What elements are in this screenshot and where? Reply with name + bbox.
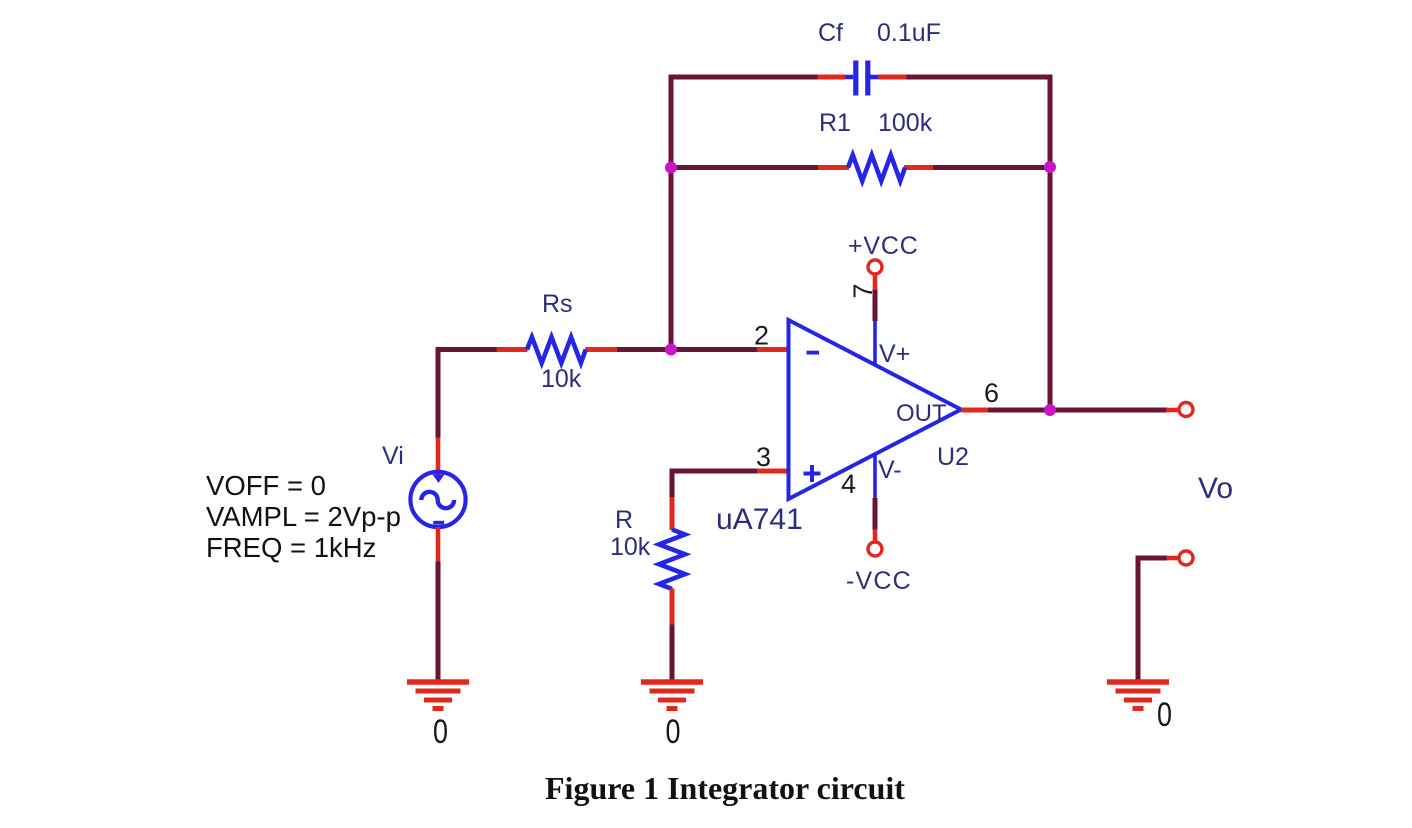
source Vi red lead top — [436, 438, 441, 478]
pin 4 maroon segment — [873, 498, 878, 530]
resistor R1 lead red right — [904, 165, 933, 170]
ground 0 at Vo — [1107, 682, 1169, 709]
resistor R lead red top — [670, 497, 675, 530]
terminal circle -VCC — [868, 542, 882, 556]
svg-text:100k: 100k — [878, 109, 933, 137]
ground 0 at R — [641, 682, 703, 709]
pin 7 maroon segment — [873, 289, 878, 321]
wire Vo reference corner — [1138, 558, 1167, 684]
pin number 2 — [754, 321, 769, 351]
svg-text:FREQ = 1kHz: FREQ = 1kHz — [206, 532, 376, 563]
pin 7 blue segment — [873, 320, 877, 365]
svg-text:Cf: Cf — [818, 19, 843, 47]
svg-text:V+: V+ — [879, 340, 910, 368]
value 10k Rs — [541, 365, 582, 393]
capacitor Cf lead red right — [878, 75, 906, 80]
pin number 7 rotated — [848, 283, 878, 298]
source Vi arrow marker — [433, 475, 445, 484]
svg-text:0.1uF: 0.1uF — [877, 19, 941, 47]
label R — [615, 506, 633, 534]
svg-text:VAMPL = 2Vp-p: VAMPL = 2Vp-p — [206, 501, 401, 532]
source Vi red lead bottom — [436, 527, 441, 562]
wire top-right corner and right vertical — [904, 77, 1050, 412]
ground label 0 (R) — [666, 713, 681, 751]
svg-text:0: 0 — [666, 713, 681, 751]
vo ref terminal red stub — [1167, 556, 1180, 561]
resistor R1 lead red left — [818, 165, 849, 170]
label +VCC — [848, 232, 919, 260]
value 10k R — [610, 533, 651, 561]
svg-text:OUT: OUT — [896, 400, 947, 427]
wire R1 row left maroon — [671, 165, 820, 170]
label Rs — [542, 290, 573, 318]
svg-text:V-: V- — [878, 456, 902, 484]
junction dot out — [1044, 404, 1056, 416]
wire Vi to ground maroon — [436, 562, 441, 685]
pin 3 stub red — [757, 469, 789, 474]
terminal circle +VCC — [868, 260, 882, 274]
caption Figure 1 Integrator circuit — [545, 770, 905, 806]
source Vi minus marker — [433, 521, 444, 525]
label V- — [878, 456, 902, 484]
label U2 — [937, 443, 969, 471]
ground label 0 (Vo) — [1157, 696, 1172, 734]
resistor Rs lead red right — [585, 347, 617, 352]
svg-text:-VCC: -VCC — [846, 567, 912, 595]
svg-text:10k: 10k — [541, 365, 582, 393]
resistor Rs lead red left — [497, 347, 528, 352]
svg-text:+VCC: +VCC — [848, 232, 919, 260]
pin number 4 — [841, 469, 856, 499]
wire pin3 corner — [672, 471, 758, 498]
svg-text:Figure 1 Integrator circuit: Figure 1 Integrator circuit — [545, 770, 905, 806]
value 100k — [878, 109, 933, 137]
svg-text:0: 0 — [433, 713, 448, 751]
svg-text:7: 7 — [848, 283, 878, 298]
svg-text:3: 3 — [756, 442, 771, 472]
svg-text:Vi: Vi — [382, 442, 404, 470]
svg-text:R: R — [615, 506, 633, 534]
ground label 0 (Vi) — [433, 713, 448, 751]
param text VOFF VAMPL FREQ — [206, 470, 401, 563]
resistor Rs zigzag — [527, 337, 586, 363]
svg-text:2: 2 — [754, 321, 769, 351]
label -VCC — [846, 567, 912, 595]
pin 2 stub red — [757, 347, 789, 352]
wire R1 row right maroon — [931, 165, 1050, 170]
svg-text:10k: 10k — [610, 533, 651, 561]
svg-text:Vo: Vo — [1198, 472, 1233, 505]
source Vi circle — [410, 472, 465, 527]
wire R to ground maroon — [670, 625, 675, 685]
svg-text:uA741: uA741 — [716, 503, 803, 536]
svg-text:U2: U2 — [937, 443, 969, 471]
terminal circle Vo ref — [1179, 551, 1193, 565]
label Vi — [382, 442, 404, 470]
capacitor C1 Cf symbol — [845, 61, 878, 96]
pin 4 red segment — [873, 529, 878, 542]
terminal circle Vo out — [1179, 403, 1193, 417]
pin 6 stub red — [961, 408, 990, 413]
pin 7 red segment — [873, 274, 878, 290]
junction dot feedback left upper — [665, 162, 677, 174]
wire feedback loop left vertical and top-left corner — [671, 77, 820, 352]
svg-text:6: 6 — [984, 378, 999, 408]
ground 0 at Vi — [407, 682, 469, 709]
op-amp minus input marker — [807, 351, 820, 355]
label Vo — [1198, 472, 1233, 505]
pin number 3 — [756, 442, 771, 472]
svg-text:VOFF = 0: VOFF = 0 — [206, 470, 326, 501]
svg-text:Rs: Rs — [542, 290, 573, 318]
resistor R lead red bottom — [670, 589, 675, 626]
wire Rs row corner to Vi — [438, 350, 499, 439]
label uA741 — [716, 503, 803, 536]
label OUT — [896, 400, 947, 427]
junction dot Rs node — [665, 344, 677, 356]
source Vi sine wave — [421, 492, 454, 508]
svg-text:R1: R1 — [819, 109, 851, 137]
svg-text:4: 4 — [841, 469, 856, 499]
label Cf — [818, 19, 843, 47]
wire out maroon — [988, 408, 1167, 413]
junction dot feedback right upper — [1044, 161, 1056, 173]
resistor R zigzag vertical — [659, 530, 685, 590]
pin number 6 — [984, 378, 999, 408]
op-amp U2 triangle — [789, 320, 962, 499]
value 0.1uF — [877, 19, 941, 47]
svg-text:0: 0 — [1157, 696, 1172, 734]
label R1 — [819, 109, 851, 137]
pin 4 blue segment — [873, 454, 877, 499]
wire Rs to pin2 maroon — [617, 347, 758, 352]
resistor R1 zigzag — [848, 155, 905, 181]
capacitor Cf lead red left — [818, 75, 846, 80]
label V+ — [879, 340, 910, 368]
out terminal red stub — [1166, 408, 1179, 413]
op-amp plus input marker — [804, 465, 821, 482]
